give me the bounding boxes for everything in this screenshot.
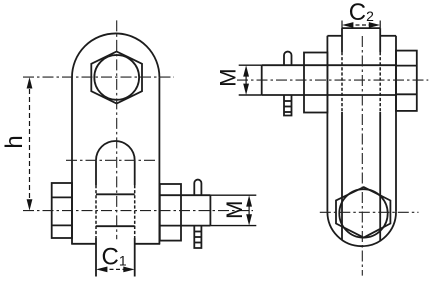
bottom hole circle	[339, 189, 387, 237]
cotter pin P1 legs	[194, 226, 201, 248]
wire: strap right edge upper	[379, 28, 381, 52]
hex bolt head (top hole)	[91, 52, 142, 104]
svg-text:M: M	[222, 201, 247, 219]
cotter pin P1 leg tick 2	[194, 236, 201, 238]
body top edge left segment	[327, 35, 342, 37]
wire: strap left edge lower	[341, 112, 343, 240]
bolt B1 protruding shank bottom	[160, 225, 211, 227]
dimension C2 extension left	[341, 21, 343, 29]
cotter pin P2 legs	[284, 95, 292, 116]
bolt B1 shank through slot lower edge	[96, 225, 135, 227]
wire: strap left leg lower	[95, 238, 97, 277]
bolt circle (top hole)	[94, 55, 139, 100]
bolt B2 head facet lower	[396, 93, 417, 95]
hex nut at bottom hole	[336, 187, 390, 238]
dimension h line	[29, 81, 31, 207]
wire: strap left leg upper	[95, 160, 97, 185]
bolt B1 end face	[209, 195, 211, 225]
cotter pin P1 loop	[194, 180, 201, 196]
dimension M2 bottom arrow	[243, 84, 249, 95]
dimension C2 right arrow	[369, 22, 380, 28]
dimension M1 extension top (dashed)	[210, 194, 256, 196]
svg-text:M: M	[215, 68, 240, 86]
wire: strap left leg hidden	[95, 185, 97, 238]
wire: body left edge	[326, 36, 328, 212]
wire: strap right leg hidden	[134, 185, 136, 238]
wire: body bottom edge left segment	[71, 243, 96, 245]
node: left view vertical centerline	[116, 20, 118, 239]
dimension M2 line	[245, 69, 247, 91]
wire: body bottom edge right segment	[135, 243, 161, 245]
wire: body right edge	[158, 77, 160, 244]
dimension C2 left arrow	[342, 22, 353, 28]
dimension h bottom arrow	[27, 199, 33, 210]
cotter pin P2 leg tick 3	[284, 111, 292, 113]
strap dome (inner U top)	[96, 141, 135, 160]
bolt B2 head facet upper	[396, 65, 417, 67]
node: dome horizontal centerline	[66, 159, 157, 161]
bolt B2 head block (right of body)	[396, 51, 417, 111]
wire: body right edge	[395, 36, 397, 212]
node: bolt B2 horizontal centerline	[237, 79, 428, 81]
dimension M1 bottom arrow	[246, 214, 252, 225]
dimension C1 right arrow	[123, 267, 134, 273]
wire: strap right edge hidden	[379, 52, 381, 112]
cotter pin P2 loop	[284, 52, 292, 66]
node: top hole horizontal centerline	[23, 76, 174, 78]
dimension C1 line	[103, 268, 128, 270]
clevis body arch (top semicircle)	[72, 33, 159, 77]
node: bottom hole horizontal centerline	[320, 211, 419, 213]
wire: strap right leg lower	[134, 238, 136, 277]
bolt B2 shank top edge	[262, 64, 396, 66]
dimension M1 top arrow	[246, 195, 252, 206]
dimension M1 line	[248, 199, 250, 222]
wire: strap right leg upper	[134, 160, 136, 185]
strap top edge	[342, 27, 380, 29]
bolt B1 head (left side block)	[52, 183, 72, 238]
bolt B2 shank bottom edge	[262, 94, 396, 96]
body top edge right segment	[380, 35, 396, 37]
wire: strap right edge lower	[379, 112, 381, 241]
node: right view vertical centerline	[361, 36, 363, 276]
dimension C2 extension right	[379, 21, 381, 29]
bolt B1 head facet upper	[52, 196, 72, 198]
cotter pin P2 leg tick 1	[284, 100, 292, 102]
dimension C2 line	[349, 24, 373, 26]
cotter pin P2 leg tick 2	[284, 106, 292, 108]
wire: body left edge	[71, 77, 73, 244]
wire: strap left edge upper	[341, 28, 343, 52]
nut N2 (left of body)	[304, 53, 327, 113]
nut N1 (right side block)	[160, 184, 181, 241]
dimension M2 extension bottom (dashed)	[239, 94, 262, 96]
svg-text:h: h	[1, 135, 28, 148]
body bottom arc	[327, 212, 396, 246]
dimension h top arrow	[27, 77, 33, 88]
bolt B1 protruding shank top	[160, 194, 211, 196]
bolt B1 shank through slot upper edge	[96, 193, 135, 195]
node: bolt B1 horizontal centerline	[23, 210, 253, 212]
dimension M2 extension top (dashed)	[239, 64, 262, 66]
cotter pin P1 leg tick 3	[194, 242, 201, 244]
bolt B2 end face	[261, 65, 263, 95]
cotter pin P1 leg tick 1	[194, 231, 201, 233]
dimension M1 extension bottom (dashed)	[210, 225, 256, 227]
bolt B1 head facet lower	[52, 224, 72, 226]
wire: strap left edge hidden	[341, 52, 343, 112]
dimension M2 top arrow	[243, 65, 249, 76]
dimension C1 left arrow	[96, 267, 107, 273]
